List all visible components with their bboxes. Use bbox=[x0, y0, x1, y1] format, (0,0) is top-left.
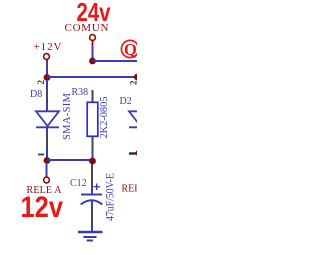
capacitor C12 top plate bbox=[81, 194, 102, 196]
wire D8 to junction J3 bbox=[46, 147, 48, 161]
svg-text:+12V: +12V bbox=[34, 41, 62, 53]
svg-text:SMA-SIM: SMA-SIM bbox=[62, 92, 73, 140]
ground bar 2 bbox=[83, 236, 96, 238]
capacitor C12 bottom plate arc bbox=[81, 200, 103, 204]
junction J3 bbox=[44, 157, 51, 164]
power port COMUN stub bbox=[92, 41, 94, 45]
wire J1 to D8 pin bbox=[46, 80, 48, 89]
svg-text:47uF/50V-E: 47uF/50V-E bbox=[103, 173, 117, 221]
power port +12V stub bbox=[46, 60, 48, 63]
power port RELE A circle bbox=[44, 177, 50, 183]
wire J3 to RELE A bbox=[46, 164, 48, 175]
svg-text:D2: D2 bbox=[120, 96, 132, 107]
wire COMUN net to right edge bbox=[93, 60, 138, 62]
capacitor C12 plus sign bbox=[94, 184, 101, 191]
diode D8 triangle bbox=[36, 111, 59, 126]
wire +12V net to right edge bbox=[47, 76, 137, 78]
wire +12V to junction bbox=[46, 62, 48, 78]
pin 1 of R38 (dark) bbox=[92, 137, 94, 149]
pin 2 of R38 (dark) bbox=[92, 90, 94, 102]
junction at D2 bottom (clipped) bbox=[136, 150, 142, 156]
pin stub of D8 to body bbox=[46, 101, 48, 111]
svg-text:D8: D8 bbox=[30, 89, 42, 100]
svg-text:C12: C12 bbox=[70, 178, 87, 189]
diode D2 cathode bar (clipped) bbox=[129, 126, 152, 128]
revision badge Q bbox=[121, 40, 138, 59]
ground bar 3 bbox=[87, 240, 93, 242]
svg-text:12v: 12v bbox=[21, 191, 64, 224]
pin of C12 top (dark) bbox=[91, 164, 93, 183]
power port RELE A stub bbox=[46, 175, 48, 177]
junction J5 at D2 bbox=[134, 74, 141, 81]
svg-text:2K2-0805: 2K2-0805 bbox=[99, 97, 110, 139]
pin stub below D8 bbox=[46, 127, 48, 133]
pin 1 of D8 (dark) bbox=[46, 133, 48, 147]
pin 2 of D8 (dark) bbox=[46, 89, 48, 101]
svg-text:Q: Q bbox=[124, 40, 137, 59]
wire J3 to J4 bbox=[47, 159, 93, 161]
wire C12 pin to plate bbox=[91, 183, 93, 194]
resistor R38 body bbox=[87, 102, 98, 136]
svg-text:2: 2 bbox=[129, 80, 138, 85]
wire to ground bbox=[91, 225, 93, 231]
junction J2 bbox=[89, 58, 96, 65]
svg-text:COMUN: COMUN bbox=[65, 22, 109, 34]
pin number 1 of D8 bbox=[38, 154, 44, 156]
diode D2 triangle (clipped) bbox=[129, 111, 152, 126]
junction J1 bbox=[44, 74, 51, 81]
ground bar 1 bbox=[78, 231, 103, 233]
wire COMUN to junction bbox=[92, 45, 94, 61]
power port COMUN circle bbox=[90, 35, 96, 41]
diode D8 cathode bar bbox=[36, 126, 59, 128]
pin number 1 of D2 bbox=[129, 152, 137, 154]
svg-text:2: 2 bbox=[36, 80, 46, 85]
junction J4 bbox=[89, 158, 96, 165]
svg-text:RELE B: RELE B bbox=[122, 184, 138, 195]
wire below C12 bbox=[91, 200, 93, 207]
power port +12V circle bbox=[44, 54, 50, 60]
wire R38 to junction J4 bbox=[92, 149, 94, 161]
pin of C12 bottom (dark) bbox=[91, 207, 93, 225]
svg-text:R38: R38 bbox=[72, 87, 89, 98]
